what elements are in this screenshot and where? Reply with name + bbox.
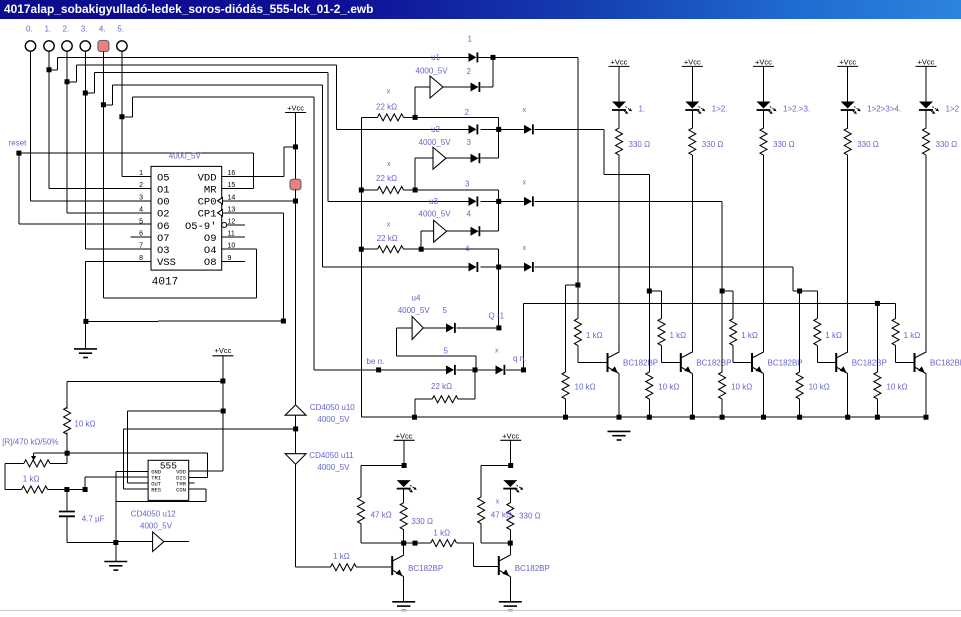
svg-text:22 kΩ: 22 kΩ — [376, 102, 397, 111]
svg-text:x: x — [523, 179, 527, 186]
svg-text:BC182BP: BC182BP — [852, 359, 887, 368]
svg-text:O3: O3 — [157, 245, 170, 257]
svg-text:22 kΩ: 22 kΩ — [377, 234, 398, 243]
svg-text:1>2.: 1>2. — [712, 105, 728, 114]
svg-text:x: x — [523, 245, 527, 252]
svg-text:O5: O5 — [157, 172, 170, 184]
svg-text:+Vcc: +Vcc — [502, 432, 519, 441]
svg-text:11: 11 — [228, 231, 235, 238]
svg-text:O9: O9 — [204, 233, 217, 245]
svg-text:O1: O1 — [157, 185, 170, 197]
svg-text:4000_5V: 4000_5V — [419, 138, 452, 147]
svg-text:4000_5V: 4000_5V — [419, 210, 452, 219]
svg-text:4000_5V: 4000_5V — [317, 463, 350, 472]
svg-text:0.: 0. — [26, 25, 33, 34]
svg-text:u3: u3 — [429, 197, 438, 206]
svg-text:O7: O7 — [157, 233, 170, 245]
svg-text:BC182BP: BC182BP — [515, 564, 550, 573]
svg-text:15: 15 — [228, 182, 236, 189]
svg-text:+Vcc: +Vcc — [684, 57, 701, 66]
svg-text:BC182BP: BC182BP — [930, 359, 961, 368]
svg-text:x: x — [495, 347, 499, 354]
svg-text:u2: u2 — [431, 125, 440, 134]
svg-text:u1: u1 — [431, 53, 440, 62]
svg-text:O8: O8 — [204, 257, 217, 269]
svg-text:x: x — [496, 498, 500, 505]
svg-text:10 kΩ: 10 kΩ — [658, 383, 679, 392]
svg-text:1 kΩ: 1 kΩ — [670, 331, 687, 340]
svg-text:q n.: q n. — [513, 354, 526, 363]
svg-text:4017: 4017 — [152, 277, 178, 289]
svg-text:10 kΩ: 10 kΩ — [74, 420, 95, 429]
svg-text:1.: 1. — [45, 25, 52, 34]
svg-text:CD4050 u12: CD4050 u12 — [131, 510, 176, 519]
svg-text:1: 1 — [468, 35, 473, 44]
svg-text:+Vcc: +Vcc — [611, 57, 628, 66]
svg-text:u4: u4 — [412, 294, 421, 303]
svg-text:10 kΩ: 10 kΩ — [809, 383, 830, 392]
svg-text:2: 2 — [467, 67, 472, 76]
svg-text:VDD: VDD — [198, 172, 217, 184]
svg-text:3: 3 — [139, 194, 143, 201]
svg-text:+Vcc: +Vcc — [839, 57, 856, 66]
svg-text:O6: O6 — [157, 221, 170, 233]
svg-text:1 kΩ: 1 kΩ — [741, 331, 758, 340]
svg-text:5.: 5. — [117, 25, 124, 34]
svg-text:1.: 1. — [639, 105, 646, 114]
svg-text:47 kΩ: 47 kΩ — [371, 511, 392, 520]
svg-text:VSS: VSS — [157, 257, 176, 269]
svg-text:1 kΩ: 1 kΩ — [825, 331, 842, 340]
svg-text:CP1: CP1 — [198, 209, 217, 221]
svg-text:4000_5V: 4000_5V — [317, 415, 350, 424]
svg-text:CP0: CP0 — [198, 197, 217, 209]
svg-text:330 Ω: 330 Ω — [519, 512, 541, 521]
svg-text:5: 5 — [444, 347, 449, 356]
svg-text:12: 12 — [228, 219, 236, 226]
svg-text:1 kΩ: 1 kΩ — [333, 552, 350, 561]
svg-text:4.7 µF: 4.7 µF — [82, 515, 105, 524]
svg-text:13: 13 — [228, 206, 236, 213]
svg-text:4000_5V: 4000_5V — [140, 521, 173, 530]
svg-text:x: x — [387, 161, 391, 168]
svg-text:3: 3 — [465, 180, 470, 189]
svg-text:CD4050 u10: CD4050 u10 — [310, 403, 355, 412]
svg-text:2: 2 — [139, 182, 143, 189]
svg-text:22 kΩ: 22 kΩ — [431, 382, 452, 391]
svg-text:10 kΩ: 10 kΩ — [731, 383, 752, 392]
svg-text:1 kΩ: 1 kΩ — [904, 331, 921, 340]
svg-text:5: 5 — [139, 219, 143, 226]
svg-text:1 kΩ: 1 kΩ — [433, 529, 450, 538]
svg-text:BC182BP: BC182BP — [408, 564, 443, 573]
svg-text:1: 1 — [139, 170, 143, 177]
svg-text:330 Ω: 330 Ω — [629, 140, 651, 149]
svg-text:MR: MR — [204, 185, 217, 197]
svg-text:1>2.>3.: 1>2.>3. — [783, 105, 810, 114]
svg-text:10 kΩ: 10 kΩ — [575, 383, 596, 392]
svg-text:4000_5V: 4000_5V — [398, 306, 431, 315]
svg-text:RES: RES — [151, 486, 162, 493]
svg-text:4: 4 — [139, 206, 143, 213]
svg-text:3: 3 — [467, 138, 472, 147]
svg-text:CON: CON — [176, 486, 186, 493]
svg-text:555: 555 — [160, 460, 177, 471]
svg-text:x: x — [387, 89, 391, 96]
svg-text:330 Ω: 330 Ω — [702, 140, 724, 149]
svg-text:reset: reset — [9, 139, 28, 148]
svg-text:330 Ω: 330 Ω — [857, 140, 879, 149]
svg-text:330 Ω: 330 Ω — [411, 517, 433, 526]
svg-text:330 Ω: 330 Ω — [773, 140, 795, 149]
svg-text:CD4050 u11: CD4050 u11 — [309, 451, 354, 460]
svg-text:330 Ω: 330 Ω — [936, 140, 958, 149]
svg-text:4000_5V: 4000_5V — [169, 152, 202, 161]
svg-text:Q -1: Q -1 — [489, 311, 505, 320]
svg-text:4.: 4. — [99, 25, 106, 34]
svg-text:1 kΩ: 1 kΩ — [586, 331, 603, 340]
svg-text:O0: O0 — [157, 197, 170, 209]
svg-text:BC182BP: BC182BP — [623, 359, 658, 368]
svg-text:1 kΩ: 1 kΩ — [23, 475, 40, 484]
svg-text:22 kΩ: 22 kΩ — [376, 174, 397, 183]
svg-text:BC182BP: BC182BP — [696, 359, 731, 368]
svg-text:+Vcc: +Vcc — [287, 103, 304, 112]
svg-text:1>2: 1>2 — [946, 105, 960, 114]
svg-text:BC182BP: BC182BP — [768, 359, 803, 368]
svg-text:1>2>3>4.: 1>2>3>4. — [867, 105, 901, 114]
svg-text:+Vcc: +Vcc — [396, 432, 413, 441]
svg-text:14: 14 — [228, 194, 236, 201]
svg-text:16: 16 — [228, 170, 236, 177]
svg-text:x: x — [523, 107, 527, 114]
svg-text:6: 6 — [139, 231, 143, 238]
svg-text:x: x — [387, 222, 391, 229]
svg-text:4000_5V: 4000_5V — [416, 67, 449, 76]
svg-text:9: 9 — [228, 255, 232, 262]
svg-text:5: 5 — [443, 306, 448, 315]
svg-text:[R]/470 kΩ/50%: [R]/470 kΩ/50% — [2, 438, 58, 447]
svg-text:4: 4 — [465, 245, 470, 254]
svg-text:O4: O4 — [204, 245, 217, 257]
svg-text:10: 10 — [228, 243, 236, 250]
svg-text:O2: O2 — [157, 209, 170, 221]
svg-text:+Vcc: +Vcc — [755, 57, 772, 66]
svg-text:4: 4 — [467, 210, 472, 219]
svg-text:3.: 3. — [81, 25, 88, 34]
svg-text:47 kΩ: 47 kΩ — [491, 511, 512, 520]
svg-text:be n.: be n. — [367, 357, 385, 366]
svg-text:10 kΩ: 10 kΩ — [886, 383, 907, 392]
svg-text:8: 8 — [139, 255, 143, 262]
svg-text:2.: 2. — [63, 25, 70, 34]
svg-text:7: 7 — [139, 243, 143, 250]
svg-text:2: 2 — [465, 108, 470, 117]
svg-text:O5-9': O5-9' — [185, 221, 217, 233]
svg-text:+Vcc: +Vcc — [918, 57, 935, 66]
svg-text:+Vcc: +Vcc — [214, 346, 231, 355]
